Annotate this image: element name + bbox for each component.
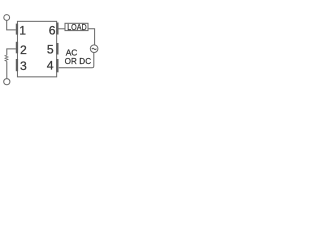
input terminal top (circle)	[4, 15, 10, 21]
svg-text:1: 1	[19, 24, 26, 38]
pin 6 tab	[56, 23, 58, 35]
svg-text:3: 3	[20, 59, 27, 73]
svg-text:5: 5	[47, 42, 54, 56]
svg-text:LOAD: LOAD	[67, 23, 87, 33]
wire: AC source to pin 4	[59, 53, 94, 68]
wire: LOAD to AC source	[88, 29, 95, 45]
wire: pin 6 to LOAD	[58, 28, 65, 30]
AC sine mark	[92, 48, 97, 49]
pin 5 tab	[56, 43, 58, 55]
input terminal bottom (circle)	[4, 79, 10, 85]
svg-text:OR DC: OR DC	[65, 57, 92, 66]
wire: top terminal to pin 1	[7, 20, 16, 30]
svg-text:2: 2	[20, 43, 27, 57]
svg-text:AC: AC	[66, 47, 78, 57]
svg-text:4: 4	[47, 58, 54, 72]
AC source V1 (circle)	[90, 45, 98, 53]
relay body U1	[17, 21, 56, 77]
svg-text:6: 6	[49, 24, 56, 38]
LOAD box	[65, 23, 88, 30]
pin 2 tab	[16, 42, 18, 54]
pin 4 tab	[56, 59, 58, 72]
wire: resistor to bottom terminal	[6, 61, 8, 78]
pin 3 tab	[16, 59, 18, 71]
wire: pin 2 to resistor	[7, 49, 16, 55]
pin 1 tab	[16, 24, 18, 35]
resistor R1 (zigzag)	[5, 55, 8, 61]
